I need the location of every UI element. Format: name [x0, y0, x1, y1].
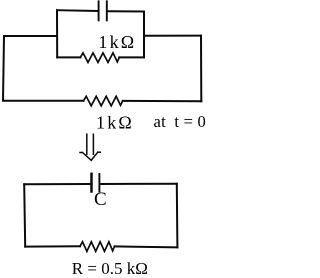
wire outer bottom-left segment: [3, 100, 84, 102]
capacitor C plates: [90, 174, 93, 192]
wire outer top-left: [4, 35, 57, 37]
wire outer bottom-right segment: [123, 100, 202, 102]
wire bottom-circuit bottom-left segment: [25, 245, 80, 247]
resistor R zigzag 0.5k: [80, 242, 115, 252]
svg-text:at t = 0: at t = 0: [154, 112, 207, 131]
arrow double down implication: [80, 134, 100, 160]
wire bottom-circuit top-left segment: [24, 183, 89, 185]
resistor R2 zigzag 1kΩ bottom: [84, 96, 123, 106]
svg-text:1kΩ: 1kΩ: [96, 112, 134, 132]
wire inner bottom-left segment: [57, 56, 80, 58]
wire inner right edge: [143, 12, 145, 58]
capacitor C1 plates: [98, 1, 100, 20]
wire outer top-right: [144, 35, 201, 37]
wire outer left edge: [3, 36, 4, 101]
svg-text:1kΩ: 1kΩ: [98, 32, 136, 52]
wire bottom-circuit right edge: [176, 184, 179, 248]
wire inner top-right segment: [108, 10, 144, 12]
wire bottom-circuit bottom-right segment: [115, 246, 178, 247]
wire inner top-left segment: [57, 9, 98, 12]
wire inner bottom-right segment: [119, 56, 144, 58]
wire outer right edge: [200, 36, 202, 102]
wire bottom-circuit left edge: [24, 184, 25, 246]
svg-text:C: C: [94, 189, 107, 210]
resistor R1 zigzag 1kΩ inner: [80, 53, 119, 63]
wire bottom-circuit top-right segment: [101, 183, 177, 185]
wire inner left edge: [56, 10, 58, 57]
svg-text:R = 0.5 kΩ: R = 0.5 kΩ: [72, 259, 148, 278]
